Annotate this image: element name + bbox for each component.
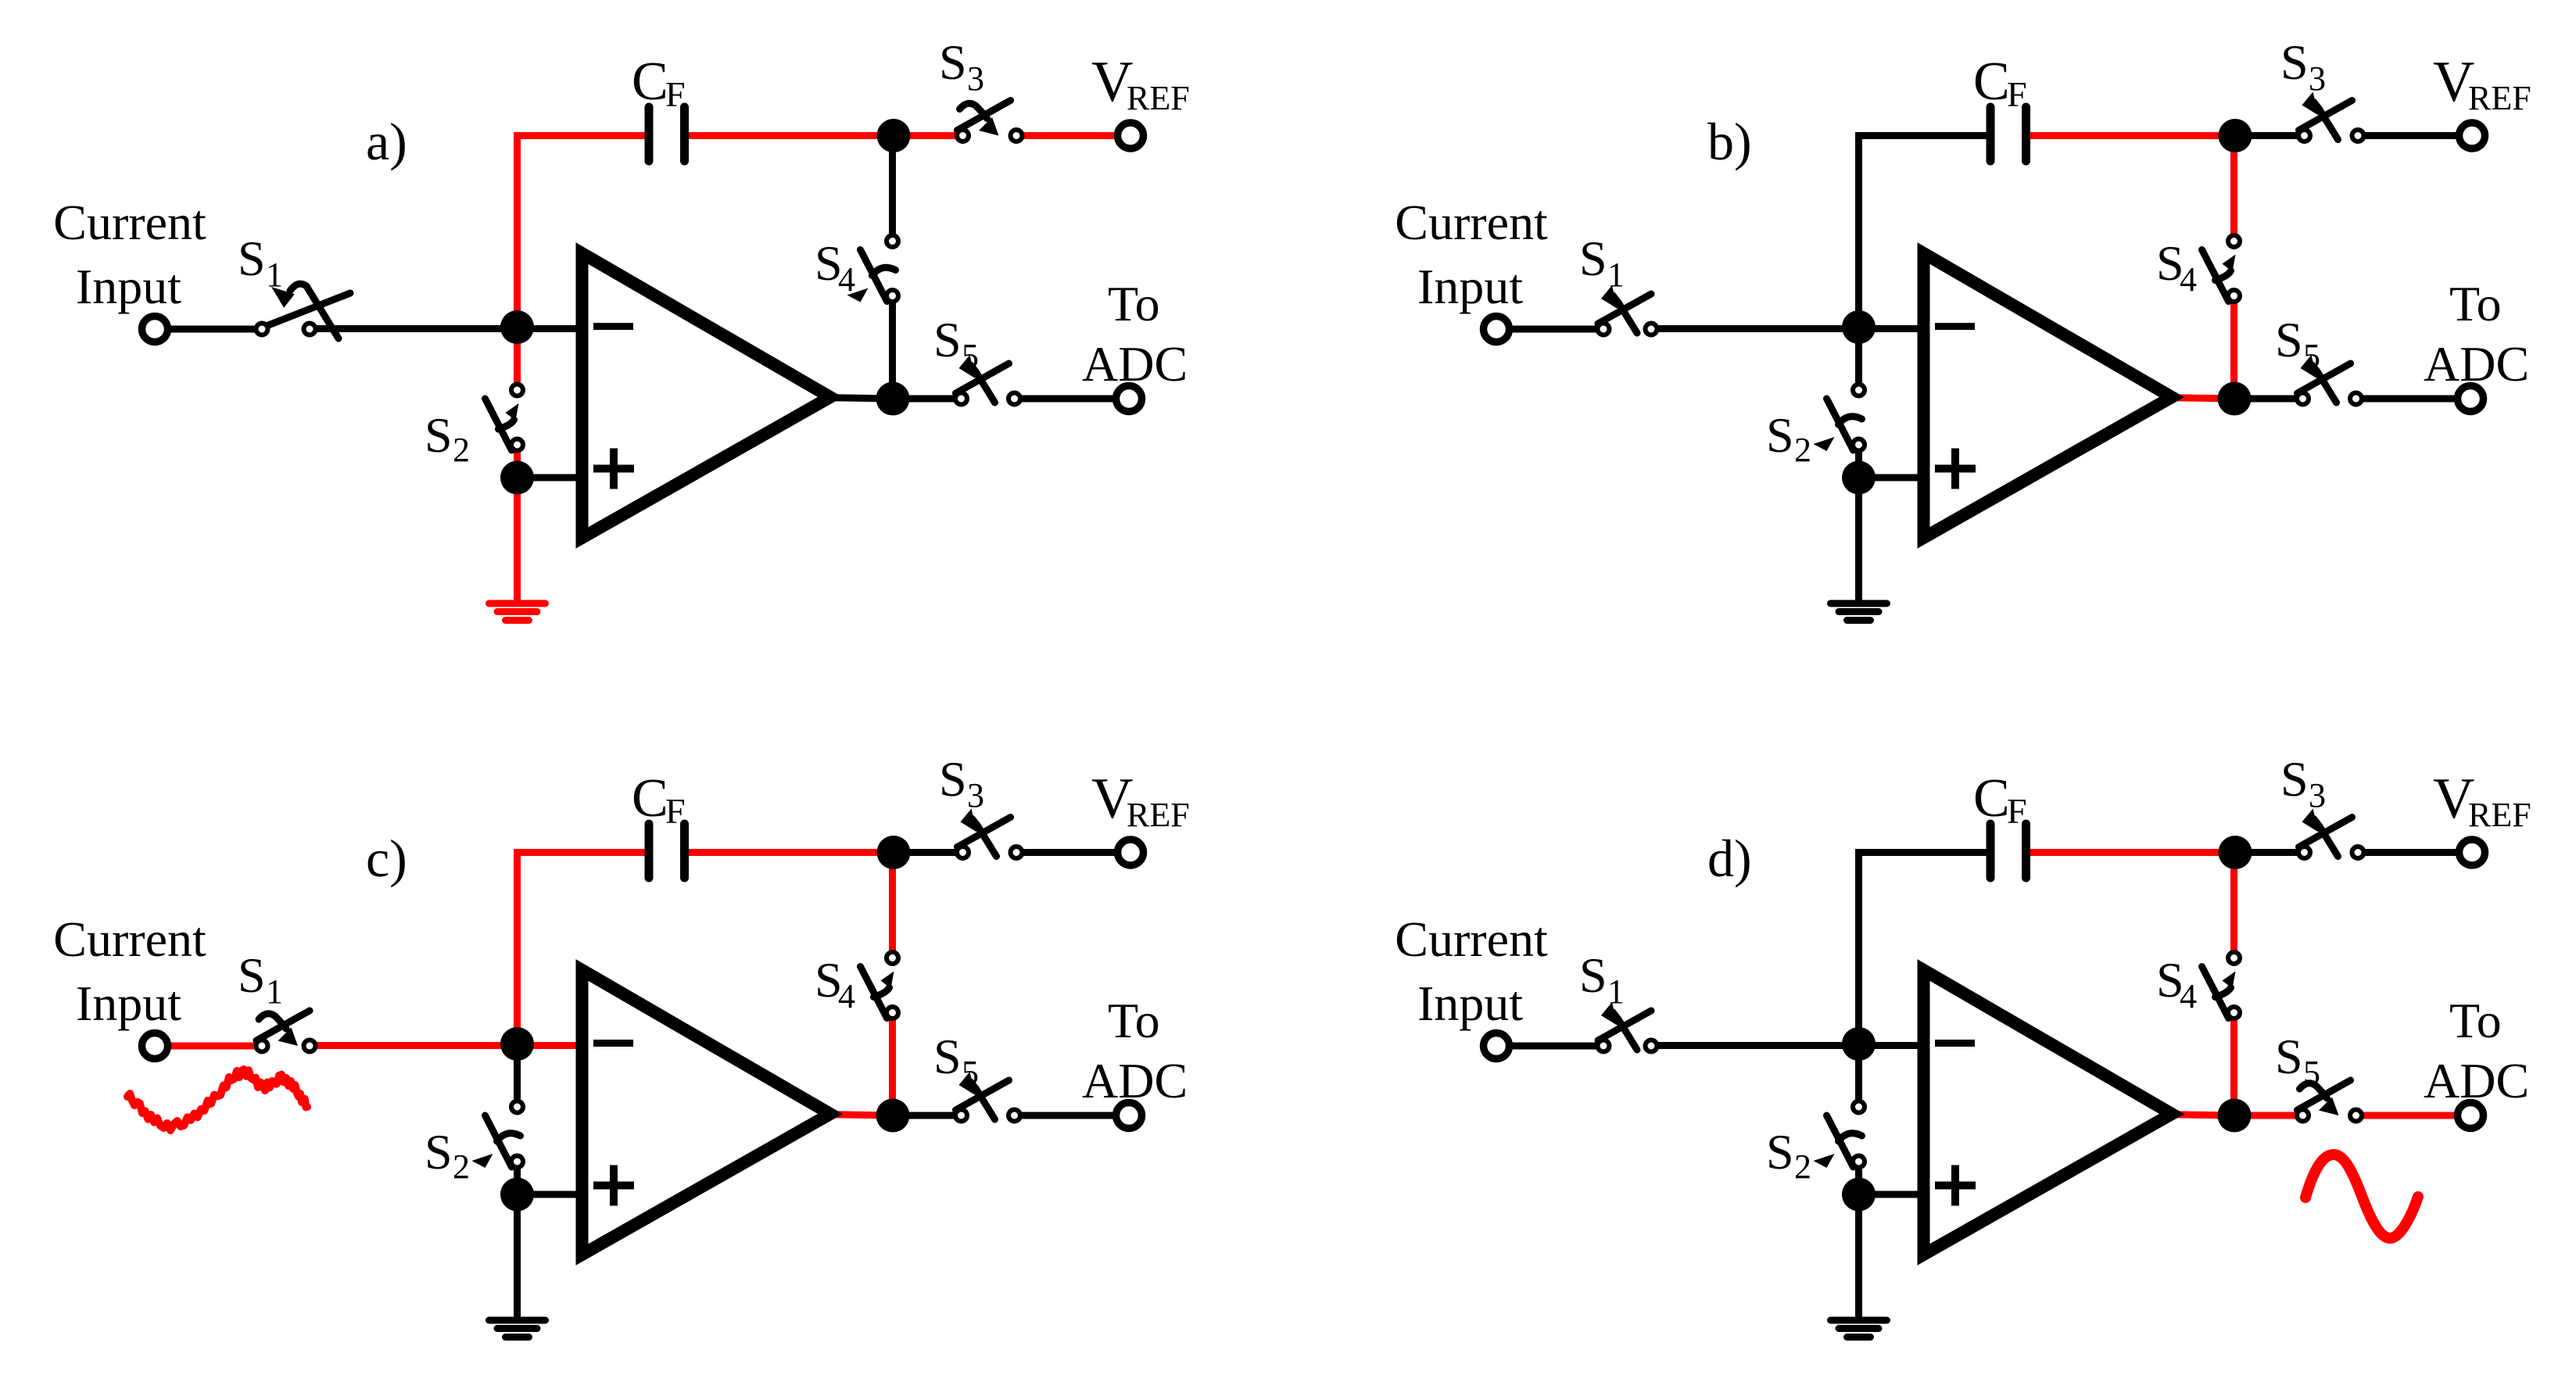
svg-text:REF: REF [2468,796,2531,834]
svg-text:S: S [425,407,453,463]
wire: inverting node up and over to CF left plate (a) [518,136,650,328]
svg-text:S: S [238,231,266,286]
switch S1 (b) [1598,285,1657,335]
label To ADC (d) [2424,993,2529,1108]
svg-text:ADC: ADC [2424,336,2529,392]
svg-text:1: 1 [1607,972,1625,1011]
wire: top node down to switch S4 (a) [889,136,896,234]
label To ADC (a) [1082,276,1188,392]
wire: Current Input terminal to switch S1 (b) [1510,326,1596,333]
wire: Current Input terminal to switch S1 (c) [169,1043,255,1050]
svg-text:F: F [665,791,686,831]
wire: CF right plate to top node (c) [685,849,894,856]
wire: inverting node up and over to CF left plate (c) [518,853,650,1045]
wire: inverting node up and over to CF left plate (d) [1859,853,1991,1045]
node: output (b) [2218,382,2252,416]
svg-text:C: C [1973,52,2010,112]
capacitor CF (b) [1990,107,2026,161]
wire: top node to switch S3 (c) [894,849,955,856]
svg-text:1: 1 [266,256,283,294]
svg-text:S: S [238,947,266,1003]
svg-text:2: 2 [1794,431,1811,469]
label CF (a) [632,52,686,114]
svg-text:5: 5 [962,1054,979,1092]
label VREF (a) [1091,50,1190,117]
wire: top node down to switch S4 (b) [2230,136,2237,234]
svg-text:REF: REF [1127,79,1190,117]
label S3 (a) [939,34,984,98]
terminal: Current Input (a) [142,317,168,342]
label: Current Input (b) [1395,195,1548,314]
svg-text:4: 4 [838,260,855,299]
terminal: VREF (c) [1118,840,1144,865]
wire: CF right plate to top node (b) [2026,132,2236,139]
terminal: To ADC (a) [1116,386,1142,412]
label: Current Input (d) [1395,911,1548,1031]
node: inverting input (d) [1842,1027,1876,1061]
svg-text:4: 4 [838,977,855,1015]
ground (b) [1831,603,1887,621]
node: CF top / S3 junction (a) [877,119,911,152]
svg-text:5: 5 [2303,1054,2320,1092]
op-amp U1 (d) [1924,970,2173,1255]
switch S4 (b) [2202,235,2241,302]
wire: switch S3 to VREF terminal (a) [1023,132,1115,139]
node: inverting input (b) [1842,310,1876,344]
terminal: VREF (b) [2460,123,2485,149]
svg-text:S: S [939,751,967,807]
svg-text:Current: Current [1395,911,1548,967]
label S4 (a) [815,235,855,299]
wire: switch S2 to non-inverting node (a) [514,452,521,478]
switch S1 (a) [256,284,351,338]
switch S3 (a) [957,101,1023,142]
svg-text:C: C [1973,768,2010,829]
switch S2 (a) [485,385,524,451]
wire: non-inverting node to op-amp (a) [518,474,586,482]
wire: CF right plate to top node (d) [2026,849,2236,856]
wire: switch S3 to VREF terminal (b) [2365,132,2456,139]
wire: top node to switch S3 (b) [2235,132,2297,139]
node: inverting input (a) [500,310,534,344]
label S4 (d) [2156,952,2197,1015]
svg-text:Current: Current [53,911,206,967]
svg-text:S: S [2280,34,2309,90]
wire: non-inverting node to op-amp (b) [1859,474,1927,482]
wire: output node to switch S5 (b) [2234,396,2295,403]
label VREF (d) [2433,767,2531,834]
node: CF top / S3 junction (d) [2219,836,2252,869]
wire: inverting node up and over to CF left plate (b) [1859,136,1991,328]
label S2 (a) [425,407,470,469]
terminal: Current Input (d) [1484,1033,1510,1059]
label S5 (a) [933,312,979,375]
terminal: VREF (a) [1118,123,1144,149]
node: non-inverting input (c) [500,1178,534,1212]
capacitor CF (d) [1990,824,2026,878]
terminal: Current Input (c) [142,1033,168,1059]
svg-text:2: 2 [453,431,470,469]
label: Current Input (a) [53,195,206,314]
svg-text:3: 3 [967,776,984,815]
switch S5 (b) [2297,355,2362,405]
wire: switch S4 down to output node (a) [889,303,896,399]
svg-text:3: 3 [967,59,984,98]
svg-text:S: S [1579,947,1607,1003]
label S5 (b) [2275,312,2320,375]
node: output (a) [876,382,910,416]
label S5 (c) [933,1029,979,1092]
svg-text:S: S [2280,751,2309,807]
wire: Current Input terminal to switch S1 (d) [1510,1043,1596,1050]
svg-text:ADC: ADC [1082,336,1188,392]
svg-text:REF: REF [2468,79,2531,117]
svg-text:F: F [2007,791,2027,831]
svg-text:4: 4 [2180,260,2197,299]
svg-text:Input: Input [76,976,181,1031]
red sine waveform at ADC output (d) [2306,1155,2418,1238]
switch S3 (c) [957,809,1023,859]
wire: inverting node down to switch S2 (a) [514,328,521,382]
ground (a) [489,603,546,621]
node: non-inverting input (b) [1842,461,1876,495]
wire: inverting node down to switch S2 (c) [514,1044,521,1099]
label To ADC (b) [2424,276,2529,392]
wire: non-inverting node down to ground (c) [514,1194,521,1320]
node: non-inverting input (a) [500,461,534,495]
wire: output node to switch S5 (a) [893,396,954,403]
svg-text:REF: REF [1127,796,1190,834]
svg-text:F: F [2007,74,2027,114]
wire: top node down to switch S4 (d) [2230,853,2237,951]
switch S2 (d) [1814,1101,1865,1169]
wire: output node to switch S5 (d) [2234,1112,2295,1119]
wire: switch S3 to VREF terminal (c) [1023,849,1115,856]
svg-text:S: S [2275,1029,2303,1084]
wire: inverting node down to switch S2 (d) [1855,1044,1862,1099]
label S3 (c) [939,751,984,815]
label CF (b) [1973,52,2027,114]
wire: switch S5 to ADC terminal (d) [2363,1112,2455,1119]
wire: op-amp output to output node (b) [2162,398,2234,399]
wire: non-inverting node to op-amp (c) [518,1191,586,1198]
wire: top node down to switch S4 (c) [889,853,896,951]
svg-text:5: 5 [962,337,979,375]
ground (c) [489,1320,546,1337]
wire: switch S1 to inverting input node (c) [317,1042,585,1049]
node: inverting input (c) [500,1027,534,1061]
wire: top node to switch S3 (a) [894,132,955,139]
svg-text:3: 3 [2309,59,2326,98]
switch S2 (c) [472,1101,524,1169]
switch S4 (d) [2202,952,2241,1019]
wire: switch S1 to inverting input node (b) [1658,325,1926,332]
svg-text:Current: Current [53,195,206,250]
terminal: To ADC (b) [2458,386,2484,412]
wire: top node to switch S3 (d) [2235,849,2297,856]
switch S1 (d) [1598,1002,1657,1052]
wire: non-inverting node to op-amp (d) [1859,1191,1927,1198]
label VREF (b) [2433,50,2531,117]
node: non-inverting input (d) [1842,1178,1876,1212]
wire: op-amp output to output node (d) [2162,1115,2234,1116]
svg-text:4: 4 [2180,977,2197,1015]
wire: switch S1 to inverting input node (d) [1658,1042,1926,1049]
svg-text:S: S [1766,407,1794,463]
switch S3 (d) [2298,809,2364,859]
terminal: To ADC (c) [1116,1103,1142,1129]
wire: op-amp output to output node (a) [821,398,893,399]
label S3 (d) [2280,751,2326,815]
switch S5 (c) [955,1072,1020,1122]
svg-text:5: 5 [2303,337,2320,375]
switch S5 (d) [2297,1080,2362,1122]
svg-text:S: S [1766,1124,1794,1180]
wire: non-inverting node down to ground (a) [514,478,521,603]
label S1 (b) [1579,231,1625,294]
wire: switch S1 to inverting input node (a) [317,325,585,332]
svg-text:a): a) [366,112,407,171]
svg-text:ADC: ADC [2424,1053,2529,1108]
svg-text:1: 1 [1607,256,1625,294]
label S5 (d) [2275,1029,2320,1092]
svg-text:d): d) [1707,829,1752,888]
wire: switch S2 to non-inverting node (c) [514,1169,521,1194]
svg-text:C: C [632,52,668,112]
svg-text:S: S [933,312,962,367]
svg-text:Input: Input [1417,976,1523,1031]
capacitor CF (a) [649,107,685,161]
label CF (c) [632,768,686,831]
svg-text:3: 3 [2309,776,2326,815]
svg-text:1: 1 [266,972,283,1011]
svg-text:c): c) [366,829,407,888]
terminal: Current Input (b) [1484,317,1510,342]
label S4 (b) [2156,235,2197,299]
wire: switch S5 to ADC terminal (b) [2363,396,2455,403]
svg-text:2: 2 [453,1147,470,1186]
terminal: To ADC (d) [2458,1103,2484,1129]
svg-text:Current: Current [1395,195,1548,250]
op-amp U1 (b) [1924,253,2173,538]
svg-text:S: S [939,34,967,90]
svg-text:Input: Input [1417,259,1523,314]
red noise waveform at Current Input (c) [127,1069,307,1130]
wire: switch S4 down to output node (b) [2230,303,2237,399]
capacitor CF (c) [649,824,685,878]
op-amp U1 (a) [582,253,831,538]
svg-text:To: To [2449,993,2502,1048]
node: output (d) [2218,1099,2252,1133]
switch S1 (c) [256,1011,316,1052]
svg-text:2: 2 [1794,1147,1811,1186]
label S2 (d) [1766,1124,1811,1186]
svg-text:S: S [933,1029,962,1084]
label CF (d) [1973,768,2027,831]
svg-text:To: To [1108,276,1160,331]
wire: non-inverting node down to ground (d) [1855,1194,1862,1320]
svg-text:C: C [632,768,668,829]
svg-text:F: F [665,74,686,114]
svg-text:b): b) [1707,112,1752,171]
wire: switch S4 down to output node (c) [889,1020,896,1115]
svg-text:Input: Input [76,259,181,314]
wire: output node to switch S5 (c) [893,1112,954,1119]
label S1 (d) [1579,947,1625,1011]
wire: non-inverting node down to ground (b) [1855,478,1862,603]
label S2 (c) [425,1124,470,1186]
svg-text:ADC: ADC [1082,1053,1188,1108]
wire: Current Input terminal to switch S1 (a) [169,326,255,333]
label S2 (b) [1766,407,1811,469]
switch S5 (a) [955,355,1020,405]
node: output (c) [876,1099,910,1133]
label S4 (c) [815,952,855,1015]
wire: switch S4 down to output node (d) [2230,1020,2237,1115]
switch S4 (c) [861,952,899,1019]
switch S4 (a) [847,235,899,303]
wire: switch S3 to VREF terminal (d) [2365,849,2456,856]
svg-text:To: To [2449,276,2502,331]
node: CF top / S3 junction (c) [877,836,911,869]
wire: switch S5 to ADC terminal (c) [1022,1112,1113,1119]
label To ADC (c) [1082,993,1188,1108]
wire: inverting node down to switch S2 (b) [1855,328,1862,382]
wire: op-amp output to output node (c) [821,1115,893,1116]
switch S2 (b) [1814,385,1865,452]
op-amp U1 (c) [582,970,831,1255]
wire: switch S2 to non-inverting node (d) [1855,1169,1862,1194]
switch S3 (b) [2298,92,2364,142]
svg-text:To: To [1108,993,1160,1048]
wire: switch S2 to non-inverting node (b) [1855,452,1862,478]
label S1 (a) [238,231,283,294]
ground (d) [1831,1320,1887,1337]
svg-text:S: S [2275,312,2303,367]
label VREF (c) [1091,767,1190,834]
label S3 (b) [2280,34,2326,98]
wire: switch S5 to ADC terminal (a) [1022,396,1113,403]
label S1 (c) [238,947,283,1011]
svg-text:S: S [425,1124,453,1180]
wire: CF right plate to top node (a) [685,132,894,139]
label: Current Input (c) [53,911,206,1031]
terminal: VREF (d) [2460,840,2485,865]
node: CF top / S3 junction (b) [2219,119,2252,152]
svg-text:S: S [1579,231,1607,286]
